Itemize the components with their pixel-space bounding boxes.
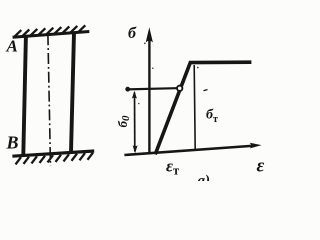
svg-text:ε: ε xyxy=(257,156,265,177)
svg-text:а): а) xyxy=(198,173,211,181)
svg-text:B: B xyxy=(6,133,19,153)
svg-text:A: A xyxy=(6,37,18,56)
svg-text:б: б xyxy=(128,25,137,42)
